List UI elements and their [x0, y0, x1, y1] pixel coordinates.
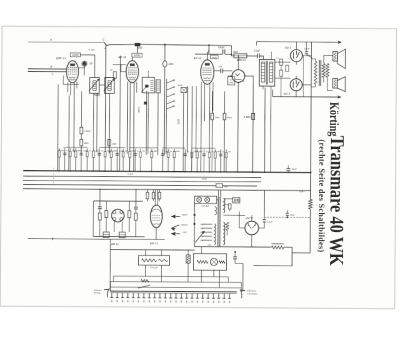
capacitor tone with switch — [305, 51, 308, 53]
wire V2 pin2 — [129, 83, 132, 171]
resistor in box right — [219, 261, 225, 263]
svg-text:0,1: 0,1 — [101, 151, 103, 153]
svg-text:EBC11: EBC11 — [237, 58, 246, 62]
junction bus dot 1 — [58, 170, 60, 172]
capacitor det L1 — [98, 206, 102, 208]
component row item 5 — [80, 148, 82, 171]
svg-text:5000: 5000 — [229, 82, 233, 84]
pin strip 6 — [138, 293, 140, 298]
resistor det R — [134, 213, 137, 220]
tube V2 EF11 — [126, 61, 139, 83]
wire bus rail 3 — [23, 180, 261, 182]
wire V4 plate drop — [252, 81, 255, 171]
wire mid v7 — [119, 56, 122, 172]
wire OPT top link — [311, 55, 333, 63]
junction bus dot 17 — [252, 171, 254, 173]
svg-text:5000: 5000 — [95, 151, 99, 153]
resistor det feed 2 — [152, 192, 155, 199]
wire cap to right v — [235, 262, 243, 264]
pin strip 15 — [186, 293, 188, 298]
wire strip bar top — [110, 290, 236, 293]
pin strip 14 — [180, 293, 182, 298]
svg-text:4,5MΩ: 4,5MΩ — [244, 116, 251, 119]
svg-text:AD 1: AD 1 — [284, 45, 292, 49]
component row item 17 — [162, 149, 164, 172]
component row item 8 — [98, 148, 100, 171]
component row item 27 — [225, 149, 227, 172]
wire sec heater — [223, 214, 245, 216]
wire 2M to cap — [247, 55, 257, 57]
junction EBC11 top — [238, 55, 240, 57]
pin strip 23 — [228, 293, 230, 298]
component row item 9 — [104, 149, 106, 172]
wire det top rail — [93, 200, 142, 202]
component row item 1 — [58, 148, 60, 171]
svg-text:♢50: ♢50 — [88, 62, 93, 65]
wire cap to transformer — [260, 56, 264, 60]
label box 12000 V1 — [70, 53, 80, 57]
switch mains — [138, 285, 151, 288]
wire T3 to V6 grid — [275, 77, 290, 79]
wire mid v12 — [191, 86, 194, 172]
resistor sec — [228, 204, 231, 209]
svg-text:2MΩ: 2MΩ — [83, 143, 89, 145]
svg-text:5000: 5000 — [176, 151, 180, 153]
junction grid EBC11 — [231, 53, 233, 55]
resistor 0,3M — [80, 127, 83, 133]
svg-text:70V~: 70V~ — [299, 190, 305, 193]
svg-text:50mV: 50mV — [182, 215, 188, 217]
wire V1 pin2 — [69, 83, 71, 96]
svg-text:EB 11: EB 11 — [111, 242, 119, 246]
transformer primary upper — [215, 207, 217, 215]
wire T2 up — [147, 71, 149, 78]
resistor 2M mid — [80, 139, 83, 145]
svg-text:1MΩ: 1MΩ — [112, 143, 117, 145]
wire top bus right — [140, 44, 231, 45]
wire OPT bottom link — [311, 77, 333, 90]
switch wave band contacts — [165, 79, 167, 111]
resistor 1M mid — [108, 140, 111, 146]
wire V3 pin2 — [203, 84, 205, 121]
junction bus dot 15 — [220, 171, 222, 173]
wire field coil line — [264, 216, 310, 218]
wire V4 right pin — [245, 76, 254, 81]
pin strip 9 — [154, 293, 156, 298]
wire power box left — [193, 203, 195, 246]
svg-text:0,1: 0,1 — [137, 151, 139, 153]
component row item 15 — [139, 149, 141, 172]
svg-text:EBF 11: EBF 11 — [56, 56, 66, 60]
wire mid v10 — [182, 93, 185, 172]
svg-text:5(Verst.): 5(Verst.) — [94, 289, 102, 292]
svg-text:100V: 100V — [212, 57, 217, 59]
component row item 14 — [134, 149, 136, 172]
wire mid v8 — [145, 91, 147, 155]
wire V2 pin3 — [133, 83, 136, 171]
svg-text:0,1: 0,1 — [66, 150, 68, 152]
pin strip 1 — [111, 293, 113, 298]
box dial lamps — [195, 196, 217, 203]
wire T1 link — [99, 84, 104, 86]
switch contact C — [104, 43, 109, 46]
wire label box to right rail — [80, 54, 94, 56]
resistor det feed 3 — [158, 192, 161, 199]
resistor tall right — [223, 113, 226, 119]
wire strip bar bottom — [110, 292, 236, 295]
wire cap to V4 — [223, 70, 232, 72]
wire V5 top to rail — [295, 42, 297, 47]
junction bus dot 12 — [184, 171, 186, 173]
svg-text:Körting: Körting — [327, 102, 342, 137]
pin strip 2 — [116, 293, 118, 298]
tap selector 220V — [202, 227, 212, 229]
resistor 0,5M right — [252, 113, 255, 119]
speaker LS1 — [333, 52, 338, 62]
pin strip 3 — [121, 293, 123, 298]
component row item 11 — [116, 149, 118, 172]
wire T3 top right up — [270, 52, 272, 60]
wire mid v3 — [73, 95, 75, 152]
wire input line 2 — [28, 71, 67, 73]
switch selector arrow — [195, 232, 204, 243]
svg-text:12000: 12000 — [134, 55, 141, 57]
wire strip line 2 — [110, 281, 241, 284]
wire bus rail 2 — [23, 176, 261, 178]
wire mid v5 — [96, 93, 98, 152]
svg-text:2MΩ: 2MΩ — [232, 52, 238, 54]
resistor 1M oval — [163, 61, 167, 67]
tap selector 125V — [202, 235, 212, 237]
wire top bus mid — [109, 43, 135, 46]
wire V1 anode up — [79, 61, 85, 68]
junction bus dot 13 — [196, 171, 198, 173]
wire bottom rail B — [284, 246, 292, 248]
capacitor 0,1 AZU — [263, 219, 266, 221]
wire strip line links — [109, 282, 111, 291]
wire V2 top to box — [131, 57, 133, 61]
svg-text:0,1µF: 0,1µF — [304, 48, 310, 50]
svg-text:50: 50 — [89, 151, 91, 153]
capacitor field tick — [286, 212, 289, 214]
svg-text:EF 11: EF 11 — [118, 55, 126, 59]
component row item 26 — [220, 149, 222, 172]
resistor shunt — [271, 246, 283, 249]
resistor det L2 — [105, 211, 108, 218]
pin strip 12 — [170, 293, 172, 298]
wire rail x106 down from C — [104, 45, 107, 153]
component row item 4 — [75, 148, 77, 171]
svg-text:EF 11: EF 11 — [194, 56, 202, 60]
svg-text:0,1µF: 0,1µF — [267, 221, 273, 223]
capacitor 0,1uF coupling — [256, 54, 258, 59]
wire det feed left — [99, 188, 101, 206]
tube V6 AD1 lower — [290, 79, 302, 91]
resistor det L — [98, 213, 101, 220]
component row item 25 — [214, 149, 216, 172]
wire rail x95 down — [94, 55, 96, 78]
tube V8 EM11 — [150, 205, 162, 228]
resistor det R2 — [128, 211, 131, 218]
lamp La1 — [197, 197, 202, 202]
transformer core — [217, 197, 219, 247]
wire V6 anode — [302, 84, 311, 86]
svg-text:50µF: 50µF — [178, 85, 184, 87]
resistor in box left — [197, 260, 208, 263]
wire top bus left — [28, 41, 104, 44]
pin strip 10 — [159, 293, 161, 298]
bracket strip left — [104, 289, 109, 297]
IF transformer T2 can — [142, 77, 154, 93]
transformer primary lower — [214, 224, 215, 245]
wire AZU top — [251, 215, 253, 221]
capacitor 5000 series blob — [135, 43, 141, 46]
component row item 18 — [167, 149, 169, 172]
pin strip 8 — [148, 293, 150, 298]
component row item 10 — [110, 149, 112, 172]
wire link to x312 — [292, 252, 310, 254]
box lamp unit — [193, 254, 226, 271]
junction blob T2 — [144, 102, 147, 105]
wire row link 1 — [63, 146, 87, 148]
svg-text:Transmare 40 WK: Transmare 40 WK — [326, 136, 349, 266]
box det bottom A — [103, 232, 109, 238]
switch phono mid — [172, 225, 180, 228]
wire 1M up — [164, 45, 166, 61]
wire V5 anode — [302, 55, 311, 57]
tap selector 110V — [202, 239, 212, 241]
interstage transformer T3 — [259, 60, 275, 87]
svg-text:0,1µF: 0,1µF — [89, 49, 95, 51]
resistor lower mid — [186, 255, 190, 263]
resistor 1M right — [211, 113, 214, 119]
tube V1 EBF11 — [66, 61, 78, 83]
wire V3 pin3 — [208, 84, 211, 171]
wire row link 5 — [191, 147, 215, 149]
wire drop x209 — [208, 45, 210, 54]
svg-text:2×0,1µF: 2×0,1µF — [149, 266, 158, 269]
wire lamps to core — [217, 199, 219, 201]
resistor 50 at V2 — [113, 72, 116, 79]
svg-text:EM 11: EM 11 — [150, 241, 159, 245]
svg-text:250: 250 — [228, 152, 231, 154]
junction bus dot 4 — [93, 170, 95, 172]
svg-text:AZ U: AZ U — [245, 216, 254, 220]
component row item 13 — [129, 149, 131, 172]
wire V2 pin4 — [136, 82, 138, 93]
label box 12000 V2 — [132, 53, 142, 57]
speaker LS2 — [333, 79, 338, 89]
wire avc long — [28, 238, 165, 241]
pin strip 16 — [191, 293, 193, 298]
wire T3 to V5 grid — [275, 61, 290, 63]
wire lower rail y249 — [110, 249, 194, 252]
wire row link 3 — [129, 147, 157, 149]
box C1 electrolytic — [139, 255, 170, 265]
capacitor trimmer at V1 anode — [83, 62, 87, 66]
svg-text:5000: 5000 — [61, 150, 65, 152]
transformer secondary upper — [223, 198, 224, 213]
svg-text:5 Verstärker: 5 Verstärker — [247, 292, 258, 295]
svg-text:100pF: 100pF — [218, 47, 225, 49]
wire T3 bottom leads — [262, 86, 264, 89]
tube V7 EB11 — [111, 209, 124, 222]
tube V3 EF11 — [201, 60, 214, 84]
wire bottom rail A — [194, 246, 271, 249]
junction bus at x209 — [208, 44, 210, 46]
wire EM11 bottom — [155, 228, 157, 240]
capacitor 50uF on bus1 right — [286, 168, 290, 170]
pin strip 18 — [202, 293, 204, 298]
box caps 2x — [233, 198, 240, 203]
wire AZU cathode down — [251, 235, 253, 247]
wire det feed right — [135, 189, 137, 207]
IF coil T2b — [156, 80, 160, 93]
junction bus dot 3 — [80, 170, 82, 172]
tube V9 AZ11 rectifier — [245, 221, 259, 235]
tube V4 EBC11 — [232, 70, 245, 83]
wire primary feed — [217, 190, 219, 196]
output transformer core — [318, 60, 320, 86]
svg-text:100mV: 100mV — [181, 225, 188, 227]
wire V7 pins — [113, 222, 115, 232]
wire row link 4 — [162, 147, 185, 149]
svg-text:0,1µF: 0,1µF — [128, 174, 134, 176]
wire drop x231 — [230, 46, 232, 56]
junction bus dot 8 — [140, 171, 142, 173]
wire AZU anode right — [259, 222, 265, 228]
IF transformer T1 can A — [90, 78, 100, 94]
IF transformer T1 can B — [105, 78, 115, 94]
resistor on line2 — [141, 279, 149, 282]
svg-text:0,1µF: 0,1µF — [254, 51, 261, 53]
wire drop x265 — [264, 88, 267, 173]
junction power left 2 — [193, 223, 195, 225]
pin strip 21 — [218, 293, 220, 298]
capacitor 50uF box mid — [181, 87, 187, 92]
wire mid v1 — [57, 84, 60, 170]
wire V1 pin4 — [76, 82, 78, 88]
wire C1 leads — [145, 250, 147, 256]
junction bus dot 7 — [129, 171, 131, 173]
tap selector 240V — [202, 223, 212, 225]
junction bus dot 9 — [151, 171, 153, 173]
svg-text:0,3MΩ: 0,3MΩ — [84, 131, 91, 133]
wire OPT vertical main — [310, 42, 311, 199]
junction bus dot 14 — [209, 171, 211, 173]
wire V3 plate right — [214, 70, 220, 72]
wire AZU anode left — [239, 211, 245, 228]
resistor 1M on bus4 — [216, 184, 223, 188]
svg-text:B: B — [50, 65, 52, 69]
svg-text:110: 110 — [200, 240, 203, 242]
wire V4 left pin — [228, 75, 232, 77]
svg-text:0,1µF: 0,1µF — [137, 107, 139, 114]
wire bus rail 5 — [23, 189, 310, 191]
svg-text:50µF: 50µF — [292, 169, 298, 171]
wire avc drop — [109, 239, 111, 291]
wire mid v15 — [224, 91, 226, 113]
resistor 2M — [234, 54, 247, 58]
wire V6 bottom to rail — [295, 94, 297, 97]
wire grid return x281 — [280, 76, 282, 96]
arrow phono 2 — [172, 233, 180, 235]
wire EM11 top — [154, 190, 156, 206]
wire bottom rail right — [273, 96, 339, 98]
capacitor det R1 — [134, 206, 138, 208]
resistor grid V5 — [280, 59, 283, 65]
wire det left edge — [92, 201, 94, 236]
pin strip 17 — [196, 293, 198, 298]
wire V3 pin4 — [212, 82, 214, 111]
wire bottom right corner — [254, 247, 293, 266]
wire V2 pin1 — [126, 82, 128, 154]
svg-text:5000: 5000 — [217, 151, 221, 153]
wire det bottom rail — [93, 235, 144, 237]
svg-text:(rechte Seite des Schaltbildes: (rechte Seite des Schaltbildes) — [317, 139, 327, 252]
wire V4 bottom pin down — [237, 82, 240, 171]
wire x312 lower — [309, 209, 311, 253]
svg-text:240: 240 — [200, 224, 203, 226]
pin strip 19 — [207, 293, 209, 298]
component row item 21 — [191, 149, 193, 172]
svg-text:50: 50 — [170, 151, 172, 153]
capacitor 100 coupling V4 — [220, 69, 222, 73]
svg-text:A: A — [49, 38, 52, 42]
component row item 22 — [196, 149, 198, 172]
component row item 3 — [69, 148, 71, 171]
svg-text:12000: 12000 — [72, 55, 79, 57]
svg-text:AD 1: AD 1 — [282, 91, 290, 95]
lamp La3 — [210, 258, 217, 265]
wire T2b down — [157, 93, 159, 155]
component row item 12 — [122, 149, 124, 172]
svg-text:250: 250 — [142, 151, 145, 153]
svg-text:1MΩ: 1MΩ — [227, 117, 232, 119]
label box V3 value — [210, 55, 218, 59]
component row item 16 — [151, 149, 153, 172]
component row item 6 — [86, 148, 88, 171]
resistor det feed 1 — [146, 192, 149, 199]
pin strip 20 — [212, 293, 214, 298]
wire mid v6 — [108, 146, 110, 152]
arrow bottom rail — [338, 96, 341, 99]
wire V1 cathode bracket — [63, 76, 79, 85]
svg-text:6 Antenne: 6 Antenne — [247, 290, 257, 293]
output transformer secondary — [322, 63, 325, 77]
svg-text:50: 50 — [125, 151, 127, 153]
bracket strip right — [240, 290, 245, 298]
svg-text:C: C — [102, 37, 104, 41]
component row item 24 — [208, 149, 210, 172]
resistor on x312 drop — [309, 199, 313, 209]
svg-text:50µF: 50µF — [290, 215, 295, 217]
wire mid v11 — [186, 86, 188, 153]
wire 1M down — [163, 67, 166, 155]
wire strip line 1 — [113, 275, 228, 278]
wire top rail right — [256, 41, 338, 44]
wire V1 pin3 — [73, 83, 75, 96]
lamp La2 — [205, 197, 210, 202]
wire after 100pF — [225, 53, 231, 55]
wire input line 1 — [28, 68, 67, 70]
wire line y53 — [195, 53, 223, 55]
junction bus dot 6 — [116, 170, 118, 172]
wire bus rail 1 — [23, 171, 310, 173]
arrow phono 1 — [172, 215, 180, 217]
junction on bus at 1M resistor — [164, 44, 166, 46]
junction bus dot 11 — [173, 171, 175, 173]
